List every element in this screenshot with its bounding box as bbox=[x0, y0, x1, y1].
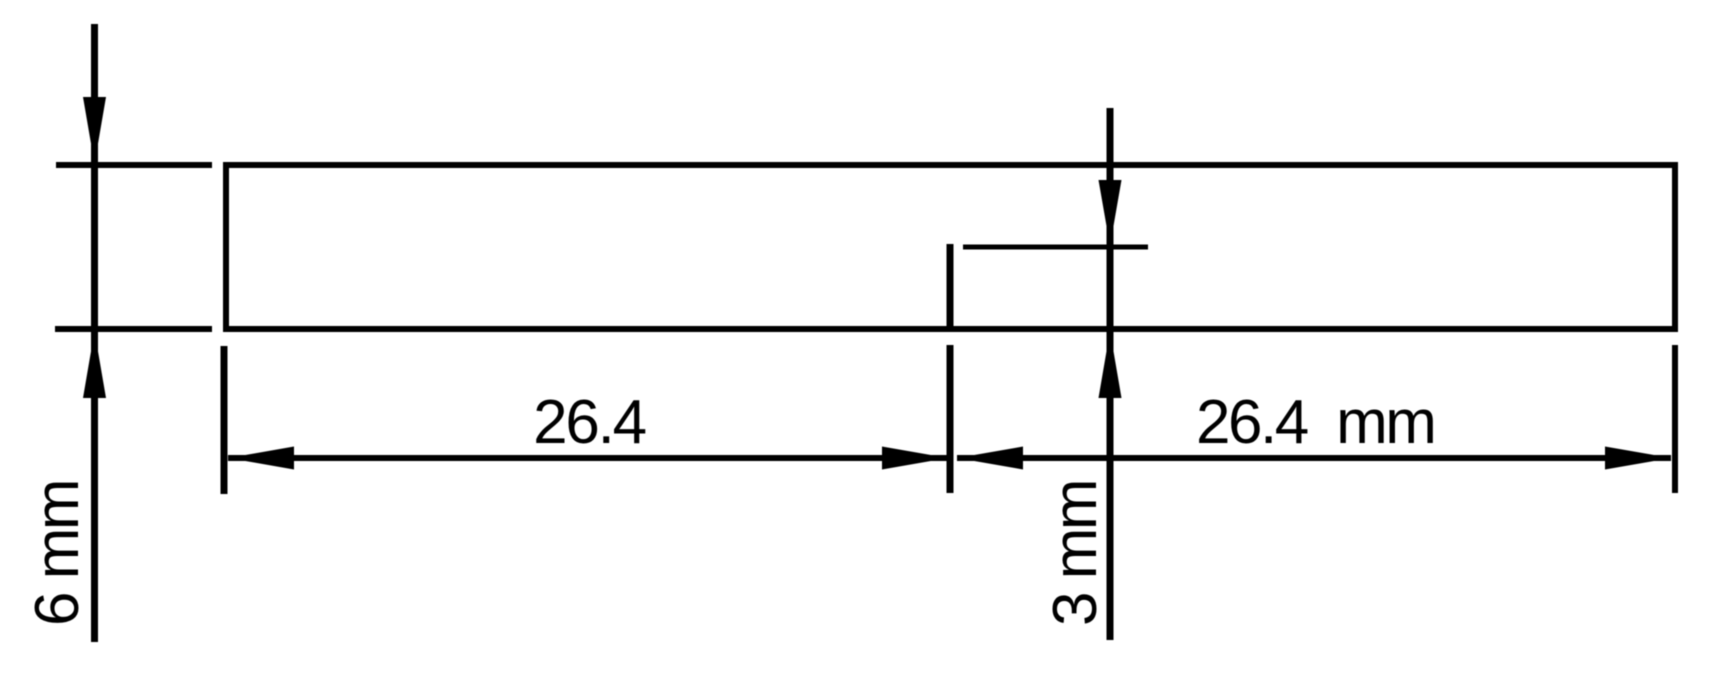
centre extension line inside bar bbox=[947, 244, 954, 326]
centre extension line below bar bbox=[947, 345, 954, 493]
svg-text:6 mm: 6 mm bbox=[23, 481, 92, 626]
3 mm dimension line bbox=[1107, 108, 1114, 640]
arrowhead right to centre extension bbox=[882, 447, 948, 470]
arrowhead right to right extension bbox=[1605, 447, 1671, 470]
6 mm dimension line bbox=[91, 24, 98, 642]
svg-text:3 mm: 3 mm bbox=[1041, 481, 1110, 626]
top extension line left bbox=[56, 162, 212, 168]
svg-text:26.4 mm: 26.4 mm bbox=[1196, 388, 1434, 457]
arrowhead left to left extension bbox=[228, 447, 294, 470]
arrowhead up to bar bottom left bbox=[83, 331, 106, 398]
right 26.4 mm dimension line bbox=[957, 455, 1671, 461]
arrowhead up to bar bottom centre bbox=[1099, 331, 1122, 398]
bottom extension line left bbox=[55, 326, 212, 332]
arrowhead down to notch line bbox=[1099, 180, 1122, 246]
right extension line below bar bbox=[1672, 345, 1678, 493]
svg-text:26.4: 26.4 bbox=[533, 388, 646, 457]
left extension line below bar bbox=[221, 346, 228, 494]
arrowhead left to centre extension bbox=[957, 447, 1023, 470]
bar outline bbox=[226, 165, 1675, 329]
arrowhead down to bar top bbox=[83, 97, 106, 164]
notch reference line inside bar bbox=[963, 245, 1148, 250]
left 26.4 dimension line bbox=[228, 455, 950, 461]
